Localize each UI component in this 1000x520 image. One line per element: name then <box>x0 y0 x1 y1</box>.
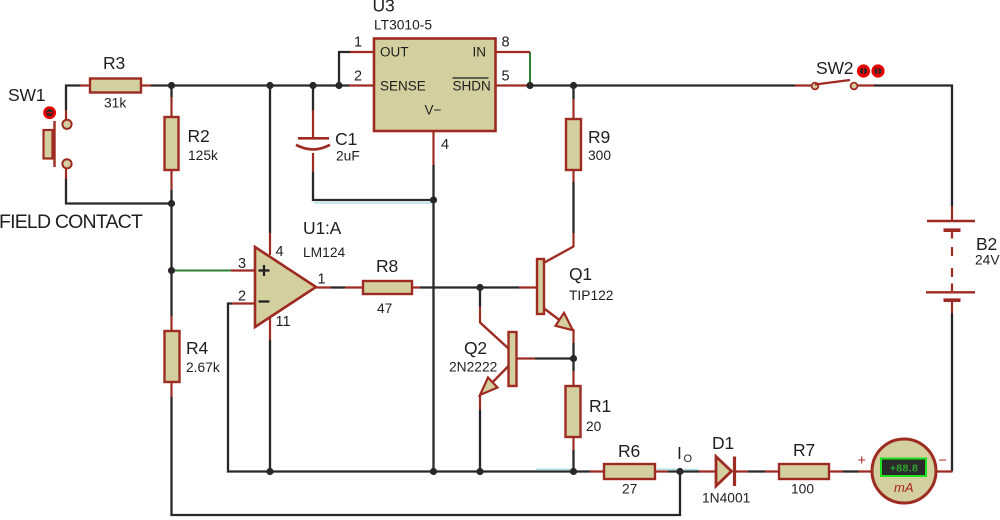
svg-text:LM124: LM124 <box>303 245 346 260</box>
svg-text:2uF: 2uF <box>336 149 360 164</box>
wire top rail from R3 to U3 SENSE <box>151 84 350 86</box>
svg-text:SHDN: SHDN <box>453 79 491 94</box>
svg-text:LT3010-5: LT3010-5 <box>374 18 432 33</box>
node IO label <box>677 443 693 465</box>
wire left vertical from node to R4 <box>170 204 172 317</box>
node OUT/SENSE junction <box>335 82 342 89</box>
wire SW1 bottom to R2 bottom junction <box>66 179 173 204</box>
node pin11 bottom rail junction <box>266 468 273 475</box>
wire op-amp output to R8 <box>331 286 345 288</box>
U3 pin name SHDN with overline <box>453 78 491 94</box>
transistor Q1 collector stub <box>572 233 574 247</box>
resistor R1 pin stubs <box>572 371 574 450</box>
op-amp U1:A triangle body <box>255 247 316 327</box>
svg-text:IN: IN <box>473 45 487 60</box>
svg-text:300: 300 <box>588 148 611 163</box>
resistor R4 pin stubs <box>170 316 172 397</box>
svg-text:V−: V− <box>425 103 442 118</box>
switch SW1 bottom contact <box>62 159 71 168</box>
wire C1 bottom to U3 V- node <box>313 172 435 200</box>
wire U3 V- pin down to bottom rail <box>432 165 434 472</box>
wire Q1 emitter to Q2 base node and R1 <box>572 343 574 371</box>
transistor Q2 emitter arrowhead <box>480 378 498 396</box>
svg-text:R6: R6 <box>618 441 640 461</box>
switch SW2 lever <box>815 80 850 85</box>
svg-text:D1: D1 <box>712 433 734 453</box>
capacitor C1 pin stubs <box>312 110 314 172</box>
switch SW2 indicator dot 2 <box>871 64 884 77</box>
resistor R1 body <box>566 386 581 437</box>
resistor R6 body <box>604 464 655 479</box>
wire D1 to R7 <box>748 470 765 472</box>
svg-text:1: 1 <box>318 272 326 288</box>
transistor Q2 emitter diagonal <box>481 366 509 395</box>
node IN/SHDN junction <box>526 82 533 89</box>
capacitor C1 top plate <box>298 137 329 140</box>
switch SW2 left contact <box>812 83 819 90</box>
node U3 V- junction <box>430 196 437 203</box>
resistor R9 body <box>566 119 581 170</box>
node IO junction <box>676 468 683 475</box>
resistor R9 pin stubs <box>572 99 574 182</box>
transistor Q1 base bar <box>537 259 544 314</box>
node Q1 base / Q2 collector junction <box>476 284 483 291</box>
svg-text:2N2222: 2N2222 <box>449 360 497 375</box>
node op-amp pin4 rail junction <box>266 82 273 89</box>
node V- bottom rail junction <box>430 468 437 475</box>
ammeter body circle <box>872 439 936 503</box>
svg-text:1: 1 <box>354 35 362 51</box>
resistor R3 pin stubs <box>80 84 151 86</box>
resistor R3 body <box>90 79 141 93</box>
svg-text:−: − <box>939 453 947 469</box>
wire R2 bottom stub connection <box>170 190 172 204</box>
svg-text:8: 8 <box>502 35 510 51</box>
svg-text:Q2: Q2 <box>464 338 487 358</box>
wire R6 to IO node <box>668 470 700 472</box>
svg-text:FIELD CONTACT: FIELD CONTACT <box>0 211 143 233</box>
node R9 top junction <box>570 82 577 89</box>
wire C1 top to rail <box>312 85 314 111</box>
resistor R7 body <box>779 464 829 479</box>
battery B2 bottom short plate <box>944 298 961 302</box>
op-amp plus symbol <box>259 265 270 276</box>
svg-text:125k: 125k <box>188 148 218 163</box>
wire U3 OUT branch down to rail <box>339 52 350 85</box>
wire Q2 base to node <box>535 357 574 359</box>
wire top rail left segment from SW1 corner to R3 <box>66 86 81 111</box>
wire SW2 to battery top <box>874 86 952 207</box>
wire op-amp pin4 from top rail <box>269 85 271 234</box>
svg-text:R7: R7 <box>793 440 815 460</box>
resistor R6 pin stubs <box>590 470 668 472</box>
diode D1 triangle <box>716 457 732 487</box>
battery B2 top long plate <box>927 220 975 222</box>
switch SW1 top contact <box>62 120 71 129</box>
svg-text:R9: R9 <box>588 127 610 147</box>
svg-text:3: 3 <box>238 256 246 272</box>
wire R7 to meter <box>843 470 858 472</box>
resistor R8 pin stubs <box>345 286 420 288</box>
svg-text:20: 20 <box>586 419 602 434</box>
transistor Q1 emitter stub <box>572 329 574 343</box>
resistor R2 body <box>165 117 179 170</box>
transistor Q2 collector diagonal <box>480 323 509 350</box>
resistor R2 pin stubs <box>170 97 172 190</box>
svg-text:I: I <box>677 443 682 463</box>
ammeter pin stubs <box>858 470 953 472</box>
svg-text:R2: R2 <box>188 126 210 146</box>
node R3/R2 junction <box>168 82 175 89</box>
ammeter display <box>881 459 926 477</box>
wire Q2 emitter down to bottom rail <box>479 410 481 472</box>
svg-text:TIP122: TIP122 <box>569 288 613 303</box>
svg-text:1N4001: 1N4001 <box>702 491 750 506</box>
regulator U3 body <box>374 39 496 132</box>
svg-text:C1: C1 <box>335 129 357 149</box>
svg-text:2: 2 <box>354 69 362 85</box>
svg-text:24V: 24V <box>975 253 1000 268</box>
wire R4 bottom to bottom-most rail to IO node <box>172 397 681 515</box>
svg-text:U3: U3 <box>373 0 395 16</box>
svg-text:R8: R8 <box>376 256 398 276</box>
svg-text:5: 5 <box>502 69 510 85</box>
switch SW1 button body <box>44 130 53 159</box>
svg-text:4: 4 <box>276 244 284 260</box>
capacitor C1 curved plate <box>296 145 330 150</box>
transistor Q2 collector stub <box>479 307 481 324</box>
switch SW1 pin stubs <box>65 110 67 179</box>
switch SW2 right contact <box>851 83 858 90</box>
svg-text:SW1: SW1 <box>8 85 45 105</box>
node R1 bottom rail junction <box>570 468 577 475</box>
transistor Q2 base stub <box>517 357 535 359</box>
battery B2 dashed link <box>951 247 953 277</box>
cyan net hint left of IO node <box>657 468 677 470</box>
cyan net hint under V- wire <box>314 202 433 204</box>
regulator U3 pin stubs <box>349 52 530 165</box>
transistor Q1 base stub <box>519 286 537 288</box>
switch SW1 red state indicator <box>43 106 56 119</box>
resistor R4 body <box>165 331 180 382</box>
diode D1 pin stubs <box>699 470 748 472</box>
svg-text:2: 2 <box>238 289 246 305</box>
svg-text:11: 11 <box>276 314 291 330</box>
wire op-amp pin11 down to bottom rail <box>269 340 271 472</box>
svg-text:mA: mA <box>894 480 914 495</box>
wire R9 top stub connection <box>572 85 574 100</box>
svg-text:2.67k: 2.67k <box>186 360 220 375</box>
transistor Q2 base bar <box>509 332 517 386</box>
resistor R8 body <box>363 281 412 294</box>
transistor Q2 emitter stub <box>479 395 481 410</box>
svg-text:R1: R1 <box>589 396 611 416</box>
wire Q2 collector stub black part <box>479 289 481 307</box>
cyan net hint right of IO node <box>684 469 698 471</box>
cyan net hint on bottom rail left of R6 <box>536 468 571 470</box>
node Q2 emitter bottom rail junction <box>476 468 483 475</box>
svg-text:+: + <box>858 453 866 469</box>
transistor Q1 emitter arrowhead <box>556 313 573 330</box>
wire R1 bottom to rail <box>572 450 574 472</box>
wire op-amp inverting input down to bottom rail and along to R6 <box>228 304 590 472</box>
switch SW1 actuator bar <box>53 121 55 167</box>
node R2 bottom junction <box>168 200 175 207</box>
svg-text:B2: B2 <box>976 234 997 254</box>
wire green op-amp noninverting input <box>172 270 232 272</box>
node C1 rail junction <box>309 82 316 89</box>
svg-text:R4: R4 <box>186 338 208 358</box>
svg-text:47: 47 <box>377 301 392 316</box>
battery B2 pin stubs <box>951 206 953 313</box>
diode D1 cathode bar <box>733 457 736 487</box>
svg-text:31k: 31k <box>104 96 126 111</box>
wire R9 bottom to Q1 collector <box>572 182 574 233</box>
wire green U3 IN to SHDN link <box>529 52 531 86</box>
wire top rail right from SHDN junction to SW2 <box>529 84 795 86</box>
svg-text:R3: R3 <box>103 53 125 73</box>
svg-text:OUT: OUT <box>380 45 409 60</box>
svg-text:+88.8: +88.8 <box>890 463 919 475</box>
svg-text:100: 100 <box>791 482 814 497</box>
wire R2 top stub connection <box>170 85 172 98</box>
transistor Q1 emitter diagonal <box>544 308 573 330</box>
transistor Q1 collector diagonal <box>544 247 574 264</box>
wire battery bottom to meter corner <box>951 313 953 472</box>
op-amp U1:A pin stubs <box>231 233 331 340</box>
resistor R7 pin stubs <box>765 470 843 472</box>
svg-text:SENSE: SENSE <box>380 79 426 94</box>
wire R8 output to Q1 base <box>420 286 519 288</box>
switch SW2 pin stubs <box>795 84 874 86</box>
svg-text:4: 4 <box>441 137 449 153</box>
svg-text:U1:A: U1:A <box>303 218 342 238</box>
op-amp minus symbol <box>259 300 270 302</box>
svg-text:O: O <box>684 453 693 465</box>
svg-text:27: 27 <box>622 482 637 497</box>
battery B2 bottom long plate <box>926 291 975 293</box>
node Q1 emitter / Q2 base / R1 junction <box>570 355 577 362</box>
node noninverting input junction <box>168 267 175 274</box>
svg-text:Q1: Q1 <box>569 264 592 284</box>
svg-text:SW2: SW2 <box>816 58 853 78</box>
battery B2 top short plate <box>944 228 961 232</box>
switch SW2 indicator dot 1 <box>857 64 870 77</box>
